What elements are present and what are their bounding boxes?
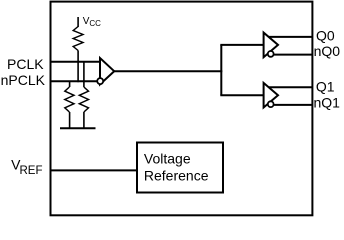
wire nQ0 output	[274, 54, 313, 56]
wire VREF input	[50, 169, 138, 171]
wire R1 to nPCLK	[77, 51, 79, 83]
chip boundary	[51, 2, 313, 216]
wire nPCLK to R2	[69, 81, 71, 87]
svg-text:Reference: Reference	[144, 167, 209, 183]
svg-text:Voltage: Voltage	[144, 150, 191, 166]
wire PCLK to R3	[83, 62, 85, 87]
node U2 inverted output bubble	[268, 51, 274, 57]
wire U1 output	[114, 70, 222, 72]
resistor R2 pull-down	[65, 87, 74, 112]
block U4 Voltage Reference	[137, 143, 223, 193]
op-amp U2 output buffer	[264, 33, 278, 58]
svg-text:VCC: VCC	[83, 16, 101, 28]
svg-text:PCLK: PCLK	[7, 56, 44, 72]
op-amp U1 input buffer	[100, 58, 114, 84]
svg-text:Q1: Q1	[316, 79, 335, 95]
svg-text:nQ1: nQ1	[314, 94, 341, 110]
resistor R3 pull-down	[79, 87, 88, 112]
svg-text:nPCLK: nPCLK	[1, 72, 46, 88]
wire branch vertical	[220, 45, 222, 95]
node U1 inverting input bubble	[97, 78, 103, 84]
svg-text:REF: REF	[20, 165, 43, 177]
power VCC stub	[77, 17, 79, 27]
wire nQ1 output	[274, 104, 313, 106]
wire R3 to rail	[83, 112, 85, 128]
wire PCLK input	[50, 61, 101, 63]
wire nPCLK input	[50, 80, 98, 82]
op-amp U3 output buffer	[264, 83, 278, 108]
wire R2 to rail	[69, 112, 71, 128]
svg-text:Q0: Q0	[316, 27, 335, 43]
wire branch to U3	[220, 94, 263, 96]
resistor R1 pull-up	[73, 27, 83, 51]
node rail	[60, 127, 96, 129]
wire Q0 output	[269, 36, 313, 38]
wire Q1 output	[269, 86, 313, 88]
wire branch to U2	[220, 44, 263, 46]
node U3 inverted output bubble	[268, 101, 274, 107]
svg-text:nQ0: nQ0	[314, 43, 341, 59]
